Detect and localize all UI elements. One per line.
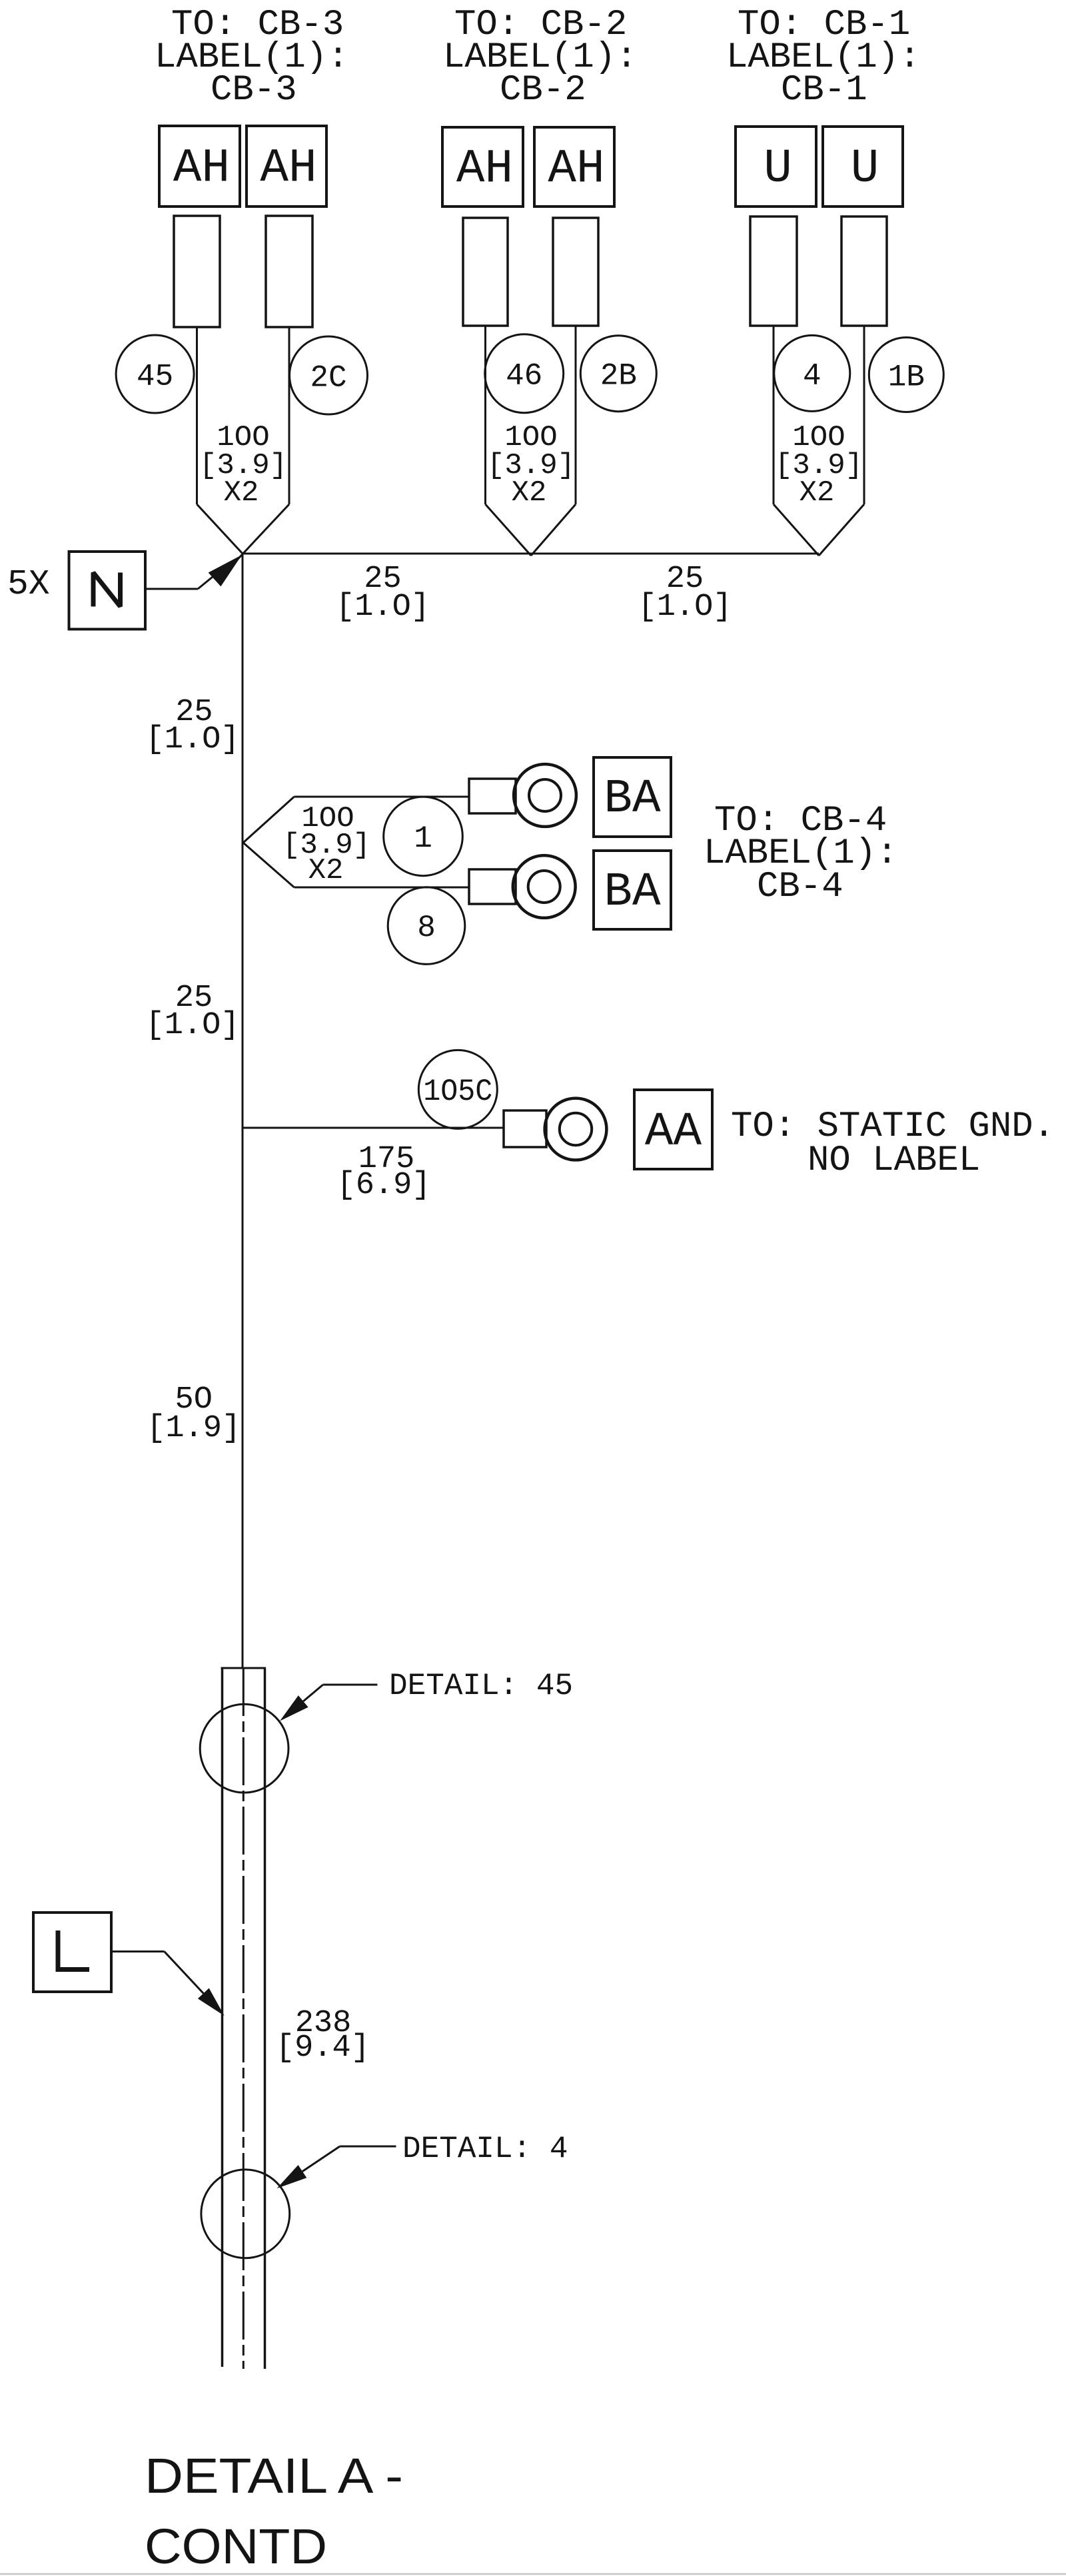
- svg-text:X2: X2: [308, 854, 344, 887]
- svg-text:2B: 2B: [600, 359, 637, 394]
- svg-text:NO LABEL: NO LABEL: [807, 1140, 980, 1181]
- svg-text:1O5C: 1O5C: [423, 1074, 492, 1109]
- svg-text:AH: AH: [260, 143, 316, 196]
- svg-text:DETAIL: 45: DETAIL: 45: [389, 1669, 573, 1703]
- svg-text:[1.9]: [1.9]: [147, 1411, 241, 1446]
- svg-text:AH: AH: [173, 143, 230, 196]
- svg-text:8: 8: [417, 911, 436, 945]
- svg-text:CB-1: CB-1: [781, 70, 867, 111]
- svg-text:DETAIL A -: DETAIL A -: [145, 2448, 403, 2503]
- svg-text:U: U: [764, 143, 792, 196]
- svg-text:46: 46: [506, 359, 542, 394]
- svg-text:BA: BA: [604, 773, 661, 826]
- svg-text:AH: AH: [456, 143, 513, 197]
- svg-text:U: U: [851, 143, 879, 196]
- svg-text:CB-4: CB-4: [757, 867, 843, 907]
- svg-text:[1.O]: [1.O]: [145, 1008, 239, 1043]
- svg-text:[9.4]: [9.4]: [276, 2030, 370, 2066]
- svg-text:CB-2: CB-2: [500, 70, 586, 111]
- svg-text:1B: 1B: [888, 360, 925, 395]
- svg-text:[6.9]: [6.9]: [336, 1168, 430, 1203]
- svg-text:DETAIL: 4: DETAIL: 4: [402, 2132, 568, 2166]
- svg-text:45: 45: [137, 360, 173, 394]
- svg-text:2C: 2C: [310, 361, 346, 396]
- svg-text:CB-3: CB-3: [211, 70, 297, 111]
- svg-text:5X: 5X: [7, 564, 50, 604]
- svg-text:AH: AH: [548, 143, 604, 197]
- svg-text:X2: X2: [799, 476, 835, 510]
- svg-text:1: 1: [414, 821, 432, 856]
- svg-text:AA: AA: [645, 1106, 702, 1159]
- svg-text:CONTD: CONTD: [145, 2519, 327, 2574]
- svg-text:[1.O]: [1.O]: [145, 722, 239, 757]
- svg-text:[1.O]: [1.O]: [638, 590, 732, 625]
- svg-text:BA: BA: [604, 866, 661, 919]
- svg-text:[1.O]: [1.O]: [336, 590, 430, 625]
- svg-text:X2: X2: [512, 476, 547, 510]
- svg-text:X2: X2: [224, 476, 259, 510]
- svg-text:4: 4: [803, 358, 821, 393]
